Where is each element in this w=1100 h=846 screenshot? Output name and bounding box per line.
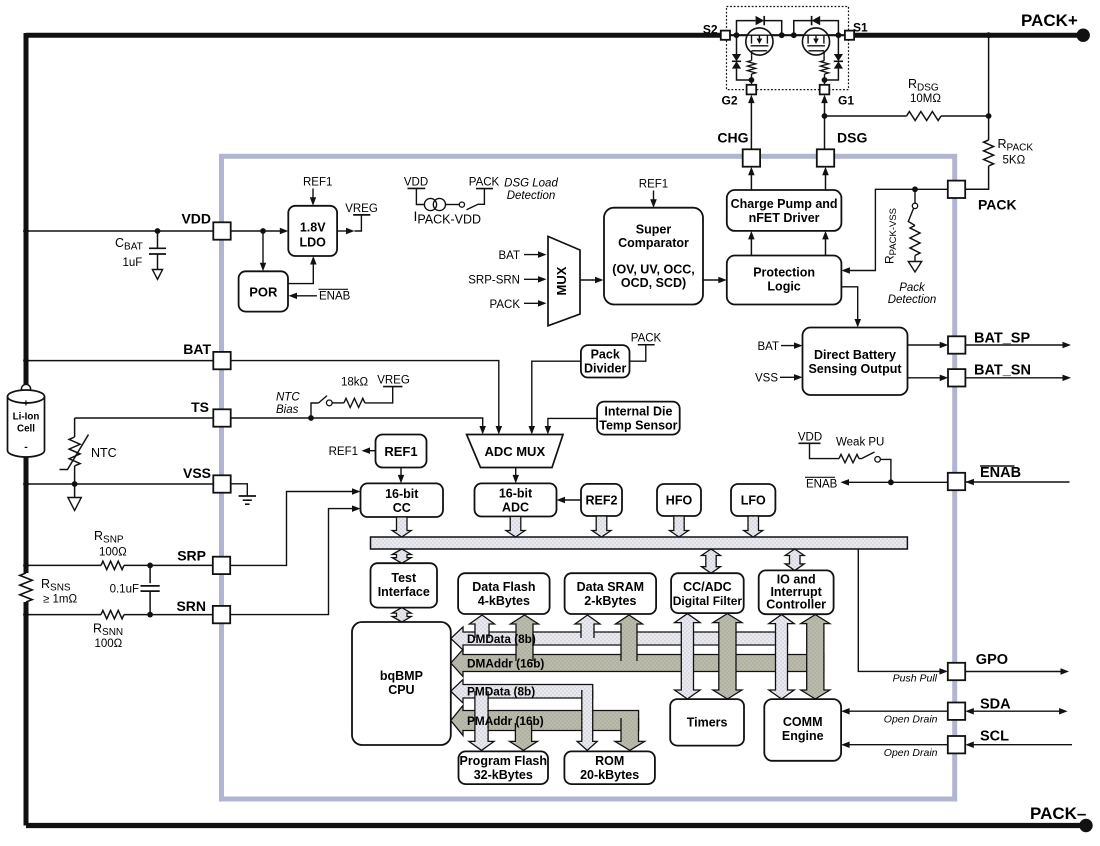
wire VSS into sensing [780, 376, 798, 378]
resistor Q2 gate [751, 55, 753, 60]
pin TS [213, 409, 230, 426]
wire MUX to comparator [580, 279, 598, 281]
bus connector LFO to bar [744, 516, 763, 537]
arrow down to pack- (open) [74, 484, 76, 498]
svg-text:REF1: REF1 [329, 446, 358, 458]
svg-text:Super: Super [636, 223, 672, 237]
IC boundary (chip outline) [222, 156, 955, 799]
bus column DataFlash addr [511, 615, 539, 661]
transistor Q1 (DSG nFET) [802, 28, 829, 55]
bus column DataSRAM addr [616, 615, 643, 661]
svg-text:VSS: VSS [755, 372, 778, 384]
wire CHG pin to G2 [750, 99, 752, 149]
svg-text:100Ω: 100Ω [99, 547, 127, 559]
bus connector test interface to CPU [392, 608, 411, 622]
svg-text:DSG Load: DSG Load [504, 178, 558, 190]
svg-text:32-kBytes: 32-kBytes [474, 768, 533, 782]
filter U-CCADCDigitalFilter [671, 573, 744, 613]
wire REF1 to LDO [312, 189, 314, 202]
svg-text:REF1: REF1 [303, 177, 332, 189]
svg-text:Detection: Detection [507, 190, 556, 202]
svg-text:PMData (8b): PMData (8b) [467, 685, 535, 699]
wire VDD pin into chip [231, 230, 284, 232]
pin S1 [845, 31, 854, 40]
svg-text:Internal Die: Internal Die [604, 405, 672, 419]
pin G2 [747, 85, 757, 95]
svg-text:Data Flash: Data Flash [472, 580, 535, 594]
svg-text:TS: TS [191, 399, 209, 415]
svg-text:VREG: VREG [377, 375, 410, 387]
bus column DataFlash data [470, 615, 495, 638]
svg-text:REF1: REF1 [384, 444, 417, 459]
bus column ProgramFlash addr [510, 723, 538, 750]
wire ENAB external [965, 481, 1069, 483]
bus connector bar to IO controller [785, 549, 804, 570]
pin GPO [948, 663, 965, 680]
bus connector CC to bar [392, 517, 411, 537]
wire BAT to MUX [524, 254, 541, 256]
svg-text:S2: S2 [703, 23, 718, 37]
svg-text:GPO: GPO [976, 652, 1008, 668]
pin SCL [948, 736, 965, 753]
current source IPACK-VDD [404, 176, 500, 210]
svg-text:HFO: HFO [666, 494, 693, 508]
svg-text:VREG: VREG [345, 203, 378, 215]
svg-text:10MΩ: 10MΩ [910, 93, 941, 105]
svg-text:NTC: NTC [91, 446, 117, 460]
svg-text:SRP: SRP [177, 548, 206, 564]
svg-text:Data SRAM: Data SRAM [577, 580, 644, 594]
node NTC to VSS junction [72, 481, 78, 487]
svg-text:Controller: Controller [766, 598, 826, 612]
controller U-IOInterrupt [759, 570, 834, 614]
svg-text:Sensing Output: Sensing Output [808, 362, 902, 376]
node Q1 gate junction [822, 77, 828, 83]
counter U-16bitCC [361, 483, 444, 517]
svg-text:Pack: Pack [591, 348, 620, 362]
svg-text:NTC: NTC [276, 392, 300, 404]
svg-text:100Ω: 100Ω [95, 638, 123, 650]
por U-POR [239, 271, 288, 311]
wire GPO external [965, 671, 1063, 673]
node cap bottom junction [147, 612, 153, 618]
wire SRN to CC [230, 509, 355, 615]
svg-text:DMData (8b): DMData (8b) [467, 632, 536, 646]
wire ENAB pin internal [845, 481, 948, 483]
pin BAT [213, 352, 230, 369]
node PACK+ terminal [1077, 29, 1090, 42]
wire protection to charge pump (right) [825, 236, 827, 256]
svg-text:2-kBytes: 2-kBytes [584, 594, 636, 608]
bus column ProgramFlash data [469, 691, 494, 750]
memory U-ProgramFlash [459, 751, 549, 784]
svg-text:Interface: Interface [378, 585, 430, 599]
node main line junctions [734, 32, 740, 38]
svg-text:VDD: VDD [798, 432, 822, 444]
node BAT rail junction [23, 358, 29, 364]
wire charge pump to DSG pin [825, 171, 827, 190]
node SRP rail junction [23, 563, 29, 569]
node PACK- terminal [1079, 819, 1092, 832]
bus DMAddr (16b) [451, 650, 824, 677]
svg-text:bqBMP: bqBMP [380, 669, 423, 683]
wire BAT_SN out [908, 377, 944, 379]
wire protection to charge pump (left) [750, 236, 752, 256]
svg-text:BAT: BAT [757, 341, 779, 353]
wire SDA internal [846, 710, 948, 712]
wire VDD from battery rail to VDD pin [26, 230, 214, 232]
svg-text:ROM: ROM [595, 754, 624, 768]
bus column ROM data [577, 690, 597, 750]
svg-text:20-kBytes: 20-kBytes [580, 768, 639, 782]
svg-text:Timers: Timers [687, 716, 728, 730]
svg-text:ADC MUX: ADC MUX [484, 444, 545, 459]
ground at VSS pin [231, 484, 256, 504]
svg-text:SRP-SRN: SRP-SRN [468, 274, 520, 286]
wire DSG pin to G1 [824, 99, 826, 149]
wire VDD to POR [262, 231, 264, 266]
capacitor CBAT 1uF [149, 231, 166, 279]
svg-text:Temp Sensor: Temp Sensor [599, 419, 677, 433]
node NTC bias tap [308, 415, 314, 421]
wire PACK+ to RPACK [988, 35, 990, 140]
svg-text:PACK: PACK [631, 333, 662, 345]
reference U-REF2 [581, 484, 622, 516]
svg-text:Test: Test [391, 571, 417, 585]
wire PACK pin to protection [846, 189, 948, 270]
bus connector bar to CC/ADC filter [702, 549, 721, 573]
svg-text:Logic: Logic [767, 280, 800, 294]
wire REF1 to CC [400, 468, 402, 480]
svg-text:nFET Driver: nFET Driver [749, 211, 820, 225]
oscillator U-HFO [657, 484, 701, 516]
bus DMData (8b) [451, 627, 788, 650]
node CBAT tap [155, 228, 161, 234]
wire REF1 to comparator [653, 191, 655, 204]
svg-text:0.1uF: 0.1uF [110, 584, 139, 596]
svg-text:S1: S1 [853, 21, 868, 35]
switch + resistor RPACK-VSS [908, 189, 921, 272]
svg-text:16-bit: 16-bit [385, 487, 419, 501]
bus PMAddr (16b) [451, 706, 639, 736]
pin SRN [213, 606, 230, 623]
bus column IO/COMM addr [801, 615, 830, 699]
svg-text:REF2: REF2 [586, 494, 618, 508]
resistor RSNN 100ohm [101, 610, 124, 618]
cpu U-bqBMP [352, 622, 451, 745]
svg-text:PACK: PACK [978, 197, 1017, 213]
svg-text:PACK: PACK [490, 299, 521, 311]
wire PACK- bottom rail [26, 823, 1086, 828]
svg-text:Open Drain: Open Drain [884, 714, 938, 726]
svg-text:Li-Ion: Li-Ion [13, 412, 40, 423]
resistor RDSG 10Mohm [825, 115, 907, 117]
svg-text:ENAB: ENAB [980, 465, 1021, 481]
pin DSG [817, 149, 834, 166]
svg-text:4-kBytes: 4-kBytes [478, 594, 530, 608]
svg-text:+: + [23, 398, 29, 410]
svg-text:-: - [24, 441, 28, 453]
svg-text:CC/ADC: CC/ADC [683, 580, 732, 594]
sensing U-DirectBattery [803, 328, 908, 396]
wire LDO output VREG [337, 230, 349, 232]
wire ADC mux to ADC [515, 468, 517, 480]
regulator U-LDO 1.8V [288, 206, 337, 256]
pin BAT_SP [948, 336, 965, 353]
svg-text:ENAB: ENAB [319, 291, 351, 303]
svg-text:LFO: LFO [741, 494, 766, 508]
svg-text:16-bit: 16-bit [499, 487, 533, 501]
bus column CCADC/Timers addr [713, 614, 742, 699]
pin VDD [213, 222, 230, 239]
divider U-PackDivider [581, 345, 630, 377]
svg-text:VDD: VDD [181, 211, 211, 227]
memory U-ROM [564, 751, 655, 784]
svg-text:Digital Filter: Digital Filter [673, 594, 743, 608]
node Q2 gate junction [749, 77, 755, 83]
wire SRN with RSNN [26, 614, 101, 616]
bus connector HFO to bar [670, 516, 689, 537]
wire BAT from battery rail to BAT pin [26, 360, 214, 362]
svg-text:PACK+: PACK+ [1021, 11, 1078, 30]
wire REF1 out (left) [367, 450, 376, 452]
svg-text:OCD, SCD): OCD, SCD) [621, 276, 686, 290]
svg-text:Engine: Engine [782, 729, 824, 743]
bus main internal bar [371, 537, 908, 549]
svg-text:Cell: Cell [17, 424, 35, 435]
resistor Q1 gate [823, 55, 825, 60]
wire BAT pin to ADC mux [231, 361, 499, 430]
wire comparator to protection [703, 279, 721, 281]
svg-text:SRN: SRN [176, 598, 206, 614]
wire TS pin to ADC mux [231, 418, 483, 430]
svg-text:PMAddr (16b): PMAddr (16b) [467, 714, 544, 728]
svg-text:VDD: VDD [404, 176, 428, 188]
bus column DataSRAM data [575, 615, 600, 638]
svg-text:ADC: ADC [502, 501, 529, 515]
pin SRP [213, 557, 230, 574]
wire BAT into sensing [781, 345, 798, 347]
svg-text:Push Pull: Push Pull [893, 673, 938, 685]
svg-text:18kΩ: 18kΩ [341, 377, 369, 389]
bus connector REF2 to bar [592, 516, 611, 537]
svg-text:≥ 1mΩ: ≥ 1mΩ [43, 594, 77, 606]
svg-text:Open Drain: Open Drain [884, 747, 938, 759]
svg-text:COMM: COMM [783, 715, 823, 729]
pin CHG [743, 149, 760, 166]
svg-text:(OV, UV, OCC,: (OV, UV, OCC, [612, 263, 694, 277]
mux ADC MUX [467, 435, 563, 468]
svg-text:Direct Battery: Direct Battery [814, 348, 896, 362]
resistor RSNS on battery rail [20, 573, 32, 602]
wire temp sensor to ADC mux [548, 418, 597, 430]
svg-text:CPU: CPU [388, 683, 414, 697]
svg-text:Program Flash: Program Flash [459, 754, 547, 768]
svg-text:G2: G2 [721, 94, 737, 108]
svg-text:Bias: Bias [276, 404, 299, 416]
wire SCL internal [846, 744, 948, 746]
comparator U-SuperComparator [604, 208, 703, 305]
pin S2 [721, 31, 730, 40]
wire SCL external [969, 744, 1072, 746]
wire protection to sensing [841, 287, 857, 323]
bus connector ADC to bar [506, 517, 525, 538]
svg-text:CC: CC [393, 501, 411, 515]
svg-text:Pack: Pack [899, 282, 926, 294]
pin ENAB [948, 473, 965, 490]
wire PACK into divider [630, 345, 646, 361]
svg-text:CHG: CHG [717, 130, 748, 146]
driver U-ChargePump [727, 190, 842, 231]
svg-text:SCL: SCL [980, 729, 1009, 745]
oscillator U-LFO [731, 484, 775, 516]
wire pack divider to ADC mux [532, 361, 581, 430]
svg-text:5KΩ: 5KΩ [1003, 155, 1026, 167]
node DSG / RDSG junction [822, 113, 828, 119]
node VDD rail junction [23, 228, 29, 234]
zener clamp Q2 gate-source [732, 35, 752, 80]
svg-text:DMAddr (16b): DMAddr (16b) [467, 657, 544, 671]
svg-text:PACK–: PACK– [1030, 804, 1086, 823]
wire VSS from battery rail to VSS pin [26, 483, 214, 485]
svg-text:Comparator: Comparator [618, 236, 689, 250]
wire BAT_SP out [908, 344, 944, 346]
adc U-16bitADC [475, 483, 557, 516]
transistor Q2 body diode [737, 16, 782, 35]
wire SRP-SRN to MUX [524, 278, 541, 280]
svg-text:Weak PU: Weak PU [836, 437, 884, 449]
svg-text:DSG: DSG [837, 130, 867, 146]
resistor RPACK 5K [984, 140, 994, 166]
bus column CCADC/Timers data [675, 614, 701, 699]
bus column IO/COMM data [769, 615, 794, 699]
wire SRP with RSNP [26, 564, 101, 566]
bus connector bar to test interface [392, 549, 411, 563]
comm U-COMMEngine [764, 699, 841, 761]
svg-text:1.8V: 1.8V [300, 221, 326, 235]
pin SDA [948, 703, 965, 720]
svg-text:SDA: SDA [980, 697, 1011, 713]
svg-text:MUX: MUX [554, 266, 569, 295]
bus column ROM addr [615, 718, 645, 750]
svg-text:Charge Pump and: Charge Pump and [731, 197, 838, 211]
svg-text:BAT: BAT [498, 250, 520, 262]
node SRN rail junction [23, 612, 29, 618]
svg-text:Detection: Detection [888, 294, 937, 306]
interface U-TestInterface [371, 563, 438, 607]
logic U-Protection [727, 256, 842, 305]
bus PMData (8b) [451, 680, 593, 704]
FET pair dashed enclosure [727, 7, 849, 90]
capacitor 0.1uF filter [141, 565, 160, 614]
memory U-DataSRAM [565, 573, 657, 614]
svg-text:VSS: VSS [183, 465, 211, 481]
svg-text:Protection: Protection [753, 266, 815, 280]
resistor RSNP 100ohm [101, 561, 124, 569]
switch + resistor 18k NTC bias [311, 387, 402, 418]
timers U-Timers [670, 699, 744, 746]
svg-text:BAT_SN: BAT_SN [974, 363, 1031, 379]
wire SDA external [969, 710, 1062, 712]
transistor Q1 body diode [794, 16, 839, 35]
svg-text:ENAB: ENAB [806, 479, 838, 491]
wire left battery rail [24, 33, 29, 573]
svg-text:REF1: REF1 [639, 179, 668, 191]
svg-text:BAT_SP: BAT_SP [974, 331, 1030, 347]
pin PACK [948, 181, 965, 198]
wire charge pump to CHG pin [750, 171, 752, 190]
reference U-REF1 [376, 435, 427, 468]
svg-text:1uF: 1uF [123, 257, 143, 269]
pin G1 [820, 85, 830, 95]
svg-text:BAT: BAT [183, 341, 211, 357]
sensor U-InternalDieTemp [597, 402, 680, 435]
svg-text:POR: POR [249, 285, 278, 300]
svg-text:LDO: LDO [300, 236, 327, 250]
wire bar to GPO [858, 549, 943, 671]
pin VSS [213, 475, 230, 492]
pull-up weak PU circuit [798, 432, 891, 483]
wire POR to LDO enable [288, 261, 313, 284]
transistor Q2 (CHG nFET) [746, 28, 773, 55]
node VSS rail junction [23, 481, 29, 487]
wire TS to NTC [75, 417, 214, 419]
svg-text:PACK: PACK [469, 176, 500, 188]
thermistor NTC [60, 435, 89, 485]
svg-text:Divider: Divider [584, 362, 627, 376]
zener clamp Q1 gate-source [824, 35, 843, 80]
memory U-DataFlash [458, 573, 549, 614]
pin BAT_SN [948, 369, 965, 386]
wire REF2 to ADC [562, 499, 581, 501]
wire SRP to CC [230, 492, 355, 566]
svg-text:G1: G1 [838, 94, 854, 108]
wire ENAB into POR [293, 295, 317, 297]
wire PACK to MUX [524, 302, 541, 304]
wire PACK+ top rail [26, 33, 723, 38]
battery cell Li-Ion [8, 384, 45, 457]
mux MUX (protection inputs) [548, 236, 580, 325]
node cap top junction [147, 563, 153, 569]
